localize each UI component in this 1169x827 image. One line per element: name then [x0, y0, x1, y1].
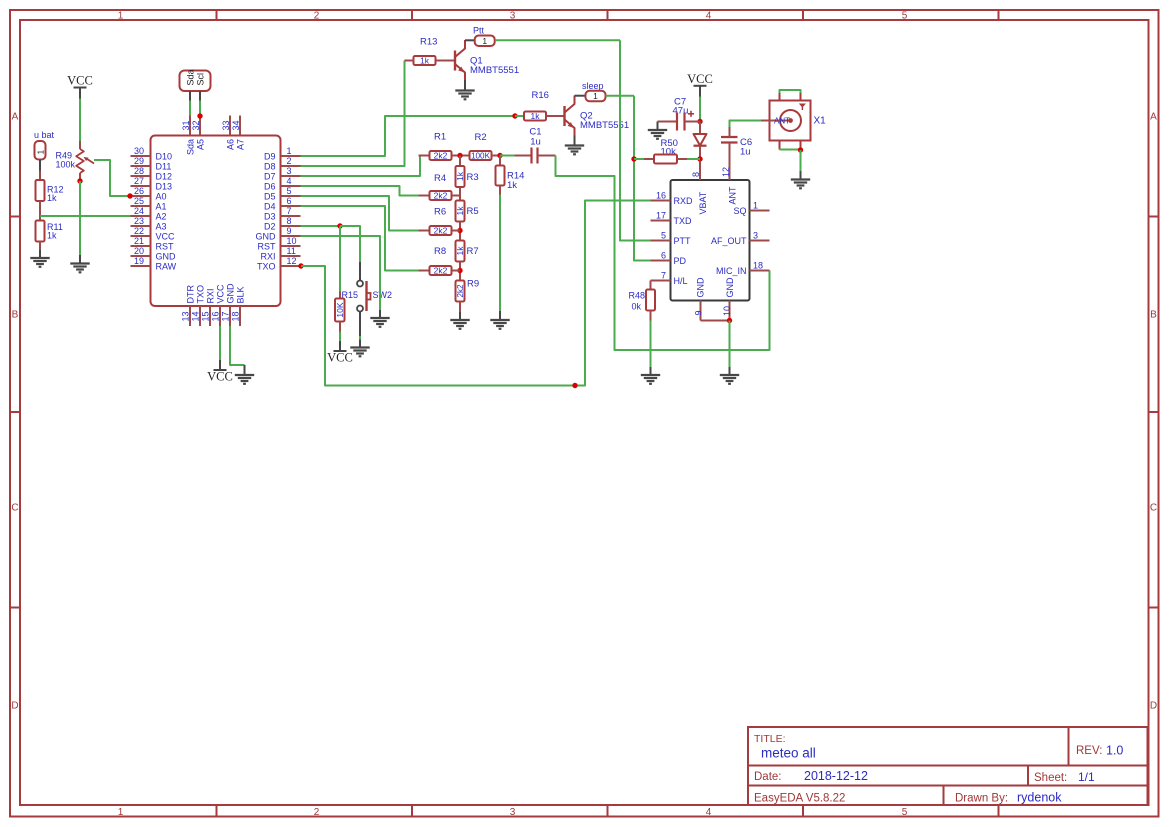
svg-text:Sda: Sda [186, 139, 196, 155]
svg-text:R9: R9 [467, 279, 479, 290]
svg-text:30: 30 [134, 146, 144, 156]
svg-text:1k: 1k [47, 231, 57, 241]
svg-text:BLK: BLK [236, 286, 246, 303]
svg-text:A7: A7 [236, 139, 246, 150]
svg-text:VCC: VCC [687, 72, 713, 86]
svg-text:34: 34 [231, 120, 241, 130]
svg-text:15: 15 [201, 311, 211, 321]
svg-text:PTT: PTT [674, 236, 692, 246]
svg-text:GND: GND [156, 251, 177, 261]
svg-text:D13: D13 [156, 181, 173, 191]
svg-text:16: 16 [211, 311, 221, 321]
svg-text:ANT: ANT [774, 116, 790, 125]
svg-text:C: C [1150, 503, 1157, 514]
svg-text:28: 28 [134, 166, 144, 176]
svg-text:23: 23 [134, 216, 144, 226]
svg-text:5: 5 [902, 807, 908, 818]
svg-text:D2: D2 [264, 221, 276, 231]
svg-text:9: 9 [287, 226, 292, 236]
svg-text:ANT: ANT [728, 186, 738, 205]
svg-text:27: 27 [134, 176, 144, 186]
svg-text:1k: 1k [455, 246, 465, 256]
svg-text:Date:: Date: [754, 771, 782, 783]
svg-text:1: 1 [482, 36, 487, 46]
svg-text:A: A [1150, 112, 1157, 123]
svg-text:u bat: u bat [34, 130, 55, 140]
svg-text:D7: D7 [264, 171, 276, 181]
svg-text:0k: 0k [632, 302, 642, 312]
svg-text:B: B [12, 310, 19, 321]
svg-text:100K: 100K [471, 152, 491, 161]
svg-text:2018-12-12: 2018-12-12 [804, 769, 868, 783]
svg-text:R3: R3 [467, 172, 479, 183]
svg-text:1: 1 [118, 11, 124, 22]
svg-text:1k: 1k [507, 180, 517, 191]
svg-text:RAW: RAW [156, 261, 177, 271]
svg-text:2k2: 2k2 [434, 226, 448, 236]
svg-text:13: 13 [181, 311, 191, 321]
svg-text:12: 12 [721, 167, 731, 177]
svg-text:21: 21 [134, 236, 144, 246]
svg-text:2k2: 2k2 [434, 266, 448, 276]
svg-text:TXD: TXD [674, 216, 693, 226]
svg-text:10K: 10K [335, 302, 345, 317]
svg-text:RXI: RXI [206, 288, 216, 303]
svg-text:1.0: 1.0 [1106, 744, 1123, 758]
svg-text:5: 5 [287, 186, 292, 196]
svg-text:D10: D10 [156, 151, 173, 161]
svg-text:R13: R13 [420, 37, 437, 48]
svg-text:MMBT5551: MMBT5551 [580, 120, 629, 131]
svg-text:9: 9 [694, 310, 704, 315]
svg-text:19: 19 [134, 256, 144, 266]
svg-text:10: 10 [722, 306, 732, 316]
svg-text:4: 4 [706, 807, 712, 818]
svg-text:1: 1 [287, 146, 292, 156]
svg-text:8: 8 [287, 216, 292, 226]
svg-text:RST: RST [258, 241, 277, 251]
svg-text:GND: GND [725, 277, 735, 298]
svg-text:1k: 1k [455, 206, 465, 216]
svg-text:A3: A3 [156, 221, 167, 231]
svg-text:A1: A1 [156, 201, 167, 211]
svg-text:RST: RST [156, 241, 175, 251]
svg-text:D3: D3 [264, 211, 276, 221]
svg-text:2: 2 [314, 807, 320, 818]
svg-text:6: 6 [661, 250, 666, 260]
svg-text:10: 10 [287, 236, 297, 246]
svg-text:33: 33 [221, 120, 231, 130]
svg-text:3: 3 [287, 166, 292, 176]
svg-text:1/1: 1/1 [1078, 770, 1095, 784]
svg-text:3: 3 [510, 807, 516, 818]
svg-text:25: 25 [134, 196, 144, 206]
svg-text:D: D [1150, 701, 1157, 712]
svg-text:2k2: 2k2 [456, 284, 465, 297]
svg-text:Drawn By:: Drawn By: [955, 793, 1008, 805]
svg-text:sleep: sleep [582, 81, 604, 91]
svg-text:D8: D8 [264, 161, 276, 171]
svg-text:1k: 1k [47, 193, 57, 203]
svg-text:Sheet:: Sheet: [1034, 772, 1067, 784]
svg-text:meteo all: meteo all [761, 746, 816, 761]
svg-text:AF_OUT: AF_OUT [711, 236, 747, 246]
svg-text:18: 18 [231, 311, 241, 321]
svg-text:Sda: Sda [185, 69, 195, 85]
svg-text:32: 32 [191, 120, 201, 130]
svg-text:R48: R48 [629, 291, 646, 301]
svg-text:A0: A0 [156, 191, 167, 201]
svg-text:GND: GND [256, 231, 277, 241]
svg-text:R8: R8 [434, 246, 446, 257]
svg-text:1: 1 [753, 200, 758, 210]
svg-text:3: 3 [753, 230, 758, 240]
svg-text:D12: D12 [156, 171, 173, 181]
svg-text:1u: 1u [530, 137, 541, 148]
svg-text:7: 7 [661, 270, 666, 280]
svg-text:rydenok: rydenok [1017, 791, 1062, 805]
svg-text:A6: A6 [226, 139, 236, 150]
svg-text:VCC: VCC [67, 74, 93, 88]
svg-text:24: 24 [134, 206, 144, 216]
svg-text:D5: D5 [264, 191, 276, 201]
svg-text:RXD: RXD [674, 196, 694, 206]
svg-text:PD: PD [674, 256, 687, 266]
svg-text:4: 4 [706, 11, 712, 22]
svg-text:VCC: VCC [327, 351, 353, 365]
svg-text:Ptt: Ptt [473, 26, 485, 36]
svg-text:47u: 47u [673, 106, 689, 117]
svg-text:X1: X1 [814, 116, 827, 127]
svg-text:22: 22 [134, 226, 144, 236]
svg-text:1k: 1k [420, 56, 430, 66]
svg-text:20: 20 [134, 246, 144, 256]
svg-text:18: 18 [753, 260, 763, 270]
svg-text:26: 26 [134, 186, 144, 196]
svg-text:3: 3 [510, 11, 516, 22]
svg-text:A2: A2 [156, 211, 167, 221]
svg-text:29: 29 [134, 156, 144, 166]
svg-text:DTR: DTR [186, 285, 196, 304]
svg-text:D9: D9 [264, 151, 276, 161]
svg-text:D4: D4 [264, 201, 276, 211]
svg-text:1: 1 [118, 807, 124, 818]
svg-text:MIC_IN: MIC_IN [716, 266, 747, 276]
svg-text:GND: GND [226, 283, 236, 304]
svg-text:17: 17 [656, 210, 666, 220]
svg-text:14: 14 [191, 311, 201, 321]
svg-text:R16: R16 [532, 90, 549, 101]
svg-text:A: A [12, 112, 19, 123]
svg-text:VCC: VCC [207, 370, 233, 384]
svg-text:VCC: VCC [156, 231, 176, 241]
svg-text:D6: D6 [264, 181, 276, 191]
svg-text:1k: 1k [531, 111, 541, 121]
svg-text:1: 1 [35, 150, 45, 155]
svg-text:12: 12 [287, 256, 297, 266]
svg-text:R1: R1 [434, 132, 446, 143]
svg-text:7: 7 [287, 206, 292, 216]
svg-text:R2: R2 [475, 132, 487, 143]
svg-text:5: 5 [661, 230, 666, 240]
svg-text:2k2: 2k2 [434, 191, 448, 201]
svg-text:H/L: H/L [674, 276, 688, 286]
svg-text:2: 2 [314, 11, 320, 22]
svg-text:TXO: TXO [196, 285, 206, 304]
svg-text:1k: 1k [455, 171, 465, 181]
svg-text:1: 1 [593, 91, 598, 101]
svg-text:4: 4 [287, 176, 292, 186]
svg-text:2k2: 2k2 [434, 151, 448, 161]
svg-text:A5: A5 [196, 139, 206, 150]
svg-text:MMBT5551: MMBT5551 [470, 65, 519, 76]
svg-text:C: C [11, 503, 18, 514]
svg-text:16: 16 [656, 190, 666, 200]
svg-text:REV:: REV: [1076, 745, 1102, 757]
svg-text:Scl: Scl [195, 73, 205, 86]
svg-text:VBAT: VBAT [698, 191, 708, 214]
svg-text:17: 17 [221, 311, 231, 321]
svg-text:R5: R5 [467, 206, 479, 217]
svg-text:SW2: SW2 [373, 290, 393, 300]
svg-text:TITLE:: TITLE: [754, 733, 786, 745]
svg-text:R6: R6 [434, 207, 446, 218]
svg-text:5: 5 [902, 11, 908, 22]
svg-text:EasyEDA V5.8.22: EasyEDA V5.8.22 [754, 793, 845, 805]
svg-text:11: 11 [287, 246, 296, 256]
svg-text:6: 6 [287, 196, 292, 206]
svg-text:2: 2 [287, 156, 292, 166]
svg-text:TXO: TXO [257, 261, 276, 271]
svg-text:8: 8 [691, 172, 701, 177]
svg-text:B: B [1150, 310, 1157, 321]
svg-text:VCC: VCC [216, 284, 226, 304]
svg-text:1u: 1u [740, 147, 751, 158]
svg-text:RXI: RXI [260, 251, 275, 261]
svg-text:GND: GND [696, 277, 706, 298]
svg-text:R4: R4 [434, 173, 446, 184]
svg-text:SQ: SQ [733, 206, 746, 216]
svg-text:R7: R7 [467, 246, 479, 257]
svg-text:D11: D11 [156, 161, 172, 171]
svg-text:31: 31 [181, 120, 191, 130]
svg-text:D: D [11, 701, 18, 712]
svg-text:100k: 100k [56, 160, 76, 170]
